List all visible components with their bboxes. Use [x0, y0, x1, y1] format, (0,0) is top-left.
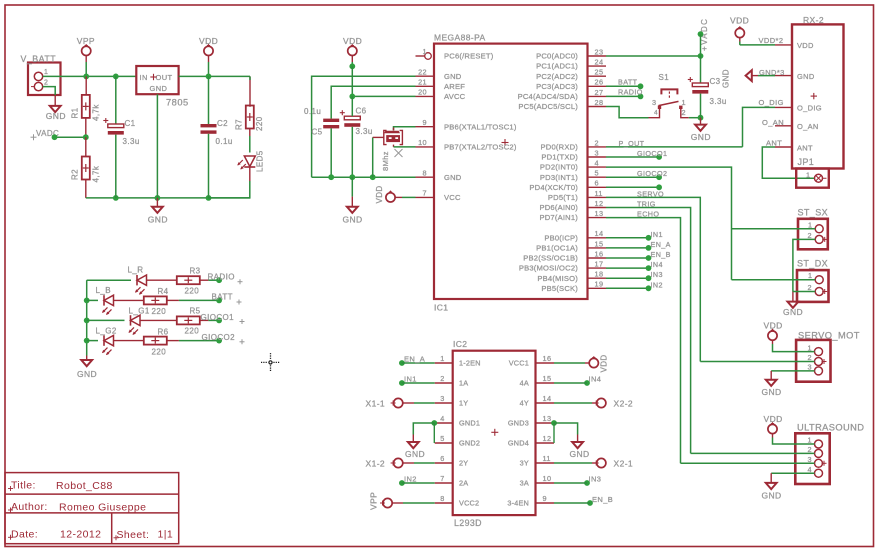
svg-text:3: 3	[595, 148, 599, 157]
ground under ST_DX	[783, 302, 803, 317]
svg-text:1: 1	[423, 47, 427, 56]
wire row2 left	[87, 299, 98, 301]
svg-text:VCC2: VCC2	[459, 499, 479, 508]
svg-text:VDD: VDD	[199, 36, 218, 46]
junction VDD branch	[349, 63, 355, 96]
svg-text:VDD: VDD	[730, 16, 749, 26]
node RADIO	[208, 272, 243, 284]
junction led row2	[84, 298, 90, 304]
svg-text:X2-2: X2-2	[614, 399, 634, 409]
svg-text:V_BATT: V_BATT	[21, 54, 57, 64]
svg-text:Romeo Giuseppe: Romeo Giuseppe	[59, 502, 146, 514]
svg-text:GIOCO2: GIOCO2	[202, 333, 236, 342]
wire TRIG to ULTRA pin2	[691, 452, 815, 454]
svg-text:4A: 4A	[520, 379, 529, 388]
svg-text:Robot_C88: Robot_C88	[56, 480, 113, 492]
net EN_B at IC2	[554, 495, 613, 506]
svg-text:PD1(TXD): PD1(TXD)	[541, 153, 578, 162]
label VDD*2	[759, 36, 784, 45]
svg-text:0.1u: 0.1u	[304, 107, 321, 116]
mouse crosshair cursor	[261, 353, 280, 372]
svg-text:PD7(AIN1): PD7(AIN1)	[539, 213, 578, 222]
svg-text:L_R: L_R	[128, 266, 144, 275]
resistor R5	[177, 307, 201, 336]
svg-text:X1-1: X1-1	[366, 399, 386, 409]
capacitor C6	[340, 107, 373, 137]
supply VDD power	[199, 36, 218, 76]
svg-text:10: 10	[543, 474, 552, 483]
svg-text:24: 24	[595, 58, 604, 67]
svg-text:EN_A: EN_A	[404, 355, 425, 364]
svg-text:3A: 3A	[520, 479, 529, 488]
svg-text:C1: C1	[125, 119, 136, 128]
wire SERVO to pin2	[700, 361, 814, 363]
wire VDD to SERVO pin1	[773, 344, 815, 352]
wire pin14 to X2-2	[554, 402, 597, 404]
led L_R	[128, 266, 147, 295]
svg-text:O_DIG: O_DIG	[797, 104, 822, 113]
wire L_G1 to R5	[141, 319, 178, 321]
svg-text:2A: 2A	[459, 479, 468, 488]
wire pin3 GIOCO1	[606, 149, 667, 160]
wire C5 to rail	[330, 128, 332, 177]
svg-text:6: 6	[595, 179, 599, 188]
svg-text:2Y: 2Y	[459, 459, 468, 468]
svg-text:3Y: 3Y	[520, 459, 529, 468]
svg-text:1: 1	[682, 98, 686, 107]
svg-text:AREF: AREF	[444, 82, 465, 91]
label ANT net	[766, 139, 782, 148]
wire ANT to JP1	[762, 147, 814, 178]
svg-text:GND1: GND1	[459, 419, 480, 428]
svg-text:R2: R2	[71, 169, 80, 180]
wire pin12 TRIG	[606, 200, 691, 454]
wire 7805 gnd down	[156, 94, 158, 198]
wire VADC node to R2	[85, 137, 87, 156]
gnd rail under caps	[312, 176, 416, 178]
wire GND*3	[752, 75, 775, 77]
svg-text:GND: GND	[46, 111, 66, 121]
svg-text:4: 4	[595, 159, 599, 168]
svg-text:GND: GND	[444, 173, 462, 182]
switch S1	[649, 73, 689, 118]
svg-text:4Y: 4Y	[520, 399, 529, 408]
svg-text:11: 11	[595, 189, 603, 198]
led L_G2	[96, 327, 117, 356]
svg-text:SERVO: SERVO	[637, 190, 664, 199]
svg-text:IN: IN	[140, 73, 148, 82]
svg-text:GND3: GND3	[508, 419, 529, 428]
wire LED5 to bottom rail	[209, 167, 250, 198]
svg-text:IN1: IN1	[404, 375, 417, 384]
svg-text:S1: S1	[659, 73, 670, 82]
svg-text:9: 9	[543, 494, 547, 503]
wire rail to R1	[85, 76, 87, 95]
crystal X 8Mhz	[381, 130, 403, 171]
svg-text:14: 14	[595, 229, 604, 238]
svg-text:PB3(MOSI/OC2): PB3(MOSI/OC2)	[519, 264, 578, 273]
wire VADC down to C3	[700, 34, 702, 83]
svg-text:GND: GND	[762, 387, 782, 397]
svg-text:8: 8	[423, 168, 427, 177]
svg-text:4: 4	[654, 110, 658, 117]
svg-text:TRIG: TRIG	[637, 200, 656, 209]
svg-text:VDD: VDD	[797, 41, 814, 50]
svg-text:GND: GND	[148, 215, 168, 225]
RX-2 pin stubs	[775, 45, 792, 147]
wire R6 to GIOCO2	[167, 340, 219, 342]
junction VPP rail	[83, 74, 89, 80]
ground bottom rail	[148, 198, 168, 225]
label O_AN net	[762, 118, 784, 127]
svg-text:IN3: IN3	[651, 270, 663, 279]
wire pin23 to VADC net	[606, 55, 701, 57]
svg-text:11: 11	[543, 454, 551, 463]
net IN2 at IC1	[606, 280, 663, 291]
svg-text:GND: GND	[797, 72, 815, 81]
supply VDD at IC2	[585, 354, 609, 372]
ground led array	[77, 360, 97, 379]
svg-text:JP1: JP1	[798, 157, 815, 167]
svg-text:VDD*2: VDD*2	[759, 36, 784, 45]
svg-text:28: 28	[595, 98, 604, 107]
junction crystal rail	[370, 174, 376, 180]
ic IC1 left pin stubs	[416, 47, 435, 197]
svg-text:Author:: Author:	[11, 501, 48, 513]
svg-text:GND: GND	[783, 307, 803, 317]
svg-text:PD3(INT1): PD3(INT1)	[540, 173, 578, 182]
connector SERVO_MOT	[796, 330, 860, 381]
svg-text:PC6(/RESET): PC6(/RESET)	[444, 52, 494, 61]
svg-text:PB1(OC1A): PB1(OC1A)	[536, 244, 578, 253]
wire SERVO pin3 gnd	[771, 371, 814, 380]
svg-text:ANT: ANT	[797, 143, 813, 152]
wire row4 left	[87, 340, 98, 342]
svg-text:3: 3	[652, 98, 656, 107]
wire L_G2 to R6	[114, 340, 144, 342]
svg-text:8Mhz: 8Mhz	[381, 151, 390, 171]
svg-text:PC5(ADC5/SCL): PC5(ADC5/SCL)	[518, 102, 578, 111]
svg-text:14: 14	[543, 394, 552, 403]
svg-text:C6: C6	[356, 107, 367, 116]
svg-text:12-2012: 12-2012	[60, 528, 101, 540]
led L_B	[96, 286, 114, 315]
svg-text:3.3u: 3.3u	[356, 127, 373, 136]
resistor R2	[71, 157, 101, 183]
svg-text:6: 6	[440, 454, 444, 463]
wire VPP to VCC2	[392, 502, 435, 504]
resistor R6	[144, 328, 169, 357]
svg-text:VDD: VDD	[600, 354, 609, 372]
supply VDD at RX-2	[730, 16, 749, 45]
wire C2 to bottom rail	[208, 134, 210, 198]
wire pin10 to crystal	[394, 145, 416, 147]
svg-text:15: 15	[595, 239, 604, 248]
label O_DIG net	[759, 98, 784, 107]
svg-text:13: 13	[543, 414, 552, 423]
resistor R3	[177, 267, 201, 296]
module RX-2	[792, 15, 844, 169]
label VADC	[31, 129, 86, 140]
svg-text:4: 4	[440, 414, 444, 423]
svg-text:PD2(INT0): PD2(INT0)	[540, 163, 578, 172]
svg-text:1A: 1A	[459, 379, 468, 388]
svg-text:9: 9	[423, 118, 427, 127]
svg-text:PC3(ADC3): PC3(ADC3)	[536, 82, 578, 91]
svg-text:10: 10	[418, 138, 427, 147]
svg-text:13: 13	[595, 209, 604, 218]
resistor R7	[235, 106, 265, 132]
svg-text:VPP: VPP	[77, 36, 95, 46]
pad VPP at IC2	[369, 492, 393, 510]
wire pin20 AVCC	[352, 95, 415, 97]
connector V_BATT	[21, 54, 61, 95]
svg-text:C3: C3	[710, 77, 721, 86]
svg-text:VCC: VCC	[444, 193, 461, 202]
wire 7805 out to VDD rail	[179, 75, 250, 77]
svg-text:O_AN: O_AN	[762, 118, 784, 127]
svg-text:VDD: VDD	[764, 414, 783, 424]
wire ECHO to ULTRA pin3	[681, 462, 815, 464]
wire L_R to R3	[147, 279, 178, 281]
wire rail corner to R7	[249, 76, 251, 106]
label +VADC vertical	[698, 18, 709, 51]
svg-text:5: 5	[440, 434, 444, 443]
svg-text:L_G2: L_G2	[96, 327, 117, 336]
svg-text:R6: R6	[158, 328, 169, 337]
svg-text:RADIO: RADIO	[208, 272, 235, 281]
svg-text:2: 2	[682, 108, 686, 117]
svg-text:R3: R3	[190, 267, 201, 276]
connector ULTRASOUND	[795, 422, 864, 484]
svg-text:IN2: IN2	[651, 280, 663, 289]
svg-text:PB7(XTAL2/TOSC2): PB7(XTAL2/TOSC2)	[444, 143, 517, 152]
svg-text:EN_B: EN_B	[592, 495, 613, 504]
svg-text:17: 17	[595, 260, 604, 269]
svg-text:26: 26	[595, 78, 604, 87]
svg-text:220: 220	[152, 307, 167, 316]
wire VDD to RX-2	[740, 44, 775, 46]
junction pin23 VADC	[698, 53, 704, 59]
svg-text:15: 15	[543, 374, 552, 383]
wire GND1 loop	[413, 423, 434, 443]
capacitor C3	[688, 77, 727, 106]
svg-text:L293D: L293D	[454, 518, 482, 528]
node GIOCO2	[202, 333, 245, 344]
svg-text:220: 220	[185, 327, 200, 336]
junction VDD rail	[206, 74, 212, 80]
svg-text:BATT: BATT	[618, 78, 638, 87]
svg-text:220: 220	[152, 348, 167, 357]
wire VCC1 to VDD	[554, 362, 585, 364]
wire pin11 to X2-1	[554, 462, 597, 464]
svg-text:1-2EN: 1-2EN	[459, 359, 481, 368]
svg-text:7805: 7805	[166, 97, 189, 107]
svg-text:ECHO: ECHO	[637, 210, 659, 219]
svg-text:3-4EN: 3-4EN	[507, 499, 529, 508]
wire L_B to R4	[114, 299, 144, 301]
svg-text:EN_B: EN_B	[651, 250, 671, 259]
svg-text:1: 1	[808, 220, 812, 229]
supply VPP	[77, 36, 95, 76]
svg-text:VCC1: VCC1	[509, 359, 529, 368]
wire pin11 SERVO	[606, 190, 700, 362]
svg-text:BATT: BATT	[212, 293, 233, 302]
svg-text:PC2(ADC2): PC2(ADC2)	[536, 72, 578, 81]
connector ST_SX	[798, 208, 829, 250]
svg-text:R4: R4	[158, 287, 169, 296]
svg-text:O_AN: O_AN	[797, 122, 819, 131]
junction led row4	[84, 338, 90, 344]
svg-text:Date:: Date:	[11, 528, 38, 540]
node BATT	[212, 293, 242, 305]
junction C2 bottom	[206, 195, 212, 201]
led L_G1	[129, 307, 150, 335]
capacitor C2	[201, 119, 233, 146]
net IN4 at IC2	[554, 375, 601, 386]
svg-text:220: 220	[185, 287, 200, 296]
svg-text:VDD: VDD	[343, 36, 362, 46]
svg-text:X2-1: X2-1	[614, 458, 634, 468]
wire rail to C1	[115, 76, 117, 124]
wire pin13 ECHO	[606, 210, 681, 464]
ground IC2 right	[570, 442, 590, 459]
wire INT0 to ST_SX pin1	[732, 228, 816, 230]
svg-text:P_OUT: P_OUT	[619, 139, 645, 148]
wire pin6 INT1	[606, 184, 662, 190]
svg-text:PB4(MISO): PB4(MISO)	[537, 274, 578, 283]
title block	[5, 473, 179, 544]
svg-text:8: 8	[440, 494, 444, 503]
wire C3 to gnd	[700, 94, 702, 125]
wire ST_SX pin2 gnd	[793, 239, 815, 301]
wire V_BATT pin1 to rail	[43, 75, 137, 77]
wire pin28 to S1	[606, 107, 649, 118]
svg-text:2: 2	[808, 283, 812, 292]
svg-text:22: 22	[418, 67, 427, 76]
net IN1 at IC2	[399, 375, 435, 386]
svg-text:GND: GND	[722, 69, 731, 88]
wire VDD to ULTRA pin1	[773, 438, 815, 445]
junction GND1 node	[431, 420, 437, 426]
svg-text:Sheet:: Sheet:	[117, 529, 150, 541]
svg-text:RADIO: RADIO	[618, 88, 643, 97]
capacitor C1	[103, 118, 139, 146]
supply VDD at VCC pin7	[375, 185, 416, 203]
svg-text:0.1u: 0.1u	[216, 137, 233, 146]
net IN4 at IC1	[606, 260, 663, 271]
svg-text:VPP: VPP	[369, 492, 379, 510]
ic IC1 right pin stubs	[588, 47, 607, 288]
svg-text:GND: GND	[343, 215, 363, 225]
wire row3 left	[87, 319, 125, 321]
svg-text:12: 12	[543, 434, 552, 443]
svg-text:18: 18	[595, 270, 604, 279]
svg-text:GND: GND	[77, 369, 97, 379]
svg-text:PD6(AIN0): PD6(AIN0)	[539, 203, 578, 212]
svg-text:3.3u: 3.3u	[710, 97, 727, 106]
wire R5 to GIOCO1	[200, 319, 219, 321]
svg-text:1Y: 1Y	[459, 399, 468, 408]
wire rail to C2	[208, 76, 210, 124]
svg-text:5: 5	[595, 169, 599, 178]
svg-text:GIOCO2: GIOCO2	[637, 169, 667, 178]
supply VDD at IC1	[343, 36, 362, 66]
led array left vertical	[86, 280, 88, 360]
supply VDD at ULTRASOUND	[764, 414, 783, 438]
svg-text:1|1: 1|1	[158, 528, 174, 540]
junction C6 rail	[349, 174, 355, 180]
resistor R4	[144, 287, 169, 316]
svg-text:ST_SX: ST_SX	[798, 208, 829, 218]
svg-text:GND2: GND2	[459, 439, 480, 448]
svg-text:PD4(XCK/T0): PD4(XCK/T0)	[529, 183, 578, 192]
label RADIO net	[606, 88, 643, 100]
label GND*3	[759, 68, 785, 77]
wire pin2 P_OUT	[606, 139, 743, 148]
wire pin4 INT0 long	[606, 167, 732, 280]
wire X1-1 to pin3	[403, 402, 435, 404]
connector ST_DX	[797, 259, 829, 302]
net EN_A at IC2	[399, 355, 435, 366]
net IN3 at IC1	[606, 270, 663, 281]
svg-text:7: 7	[440, 474, 444, 483]
junction C1 top	[113, 74, 119, 80]
junction 7805 gnd bottom	[155, 195, 161, 201]
svg-text:VDD: VDD	[375, 185, 384, 203]
supply VDD at SERVO_MOT	[764, 321, 783, 345]
svg-text:2: 2	[44, 80, 48, 87]
wire VDD to C6	[351, 96, 353, 116]
node VADC dot	[52, 134, 89, 140]
svg-text:GND: GND	[405, 449, 425, 459]
net EN_B at IC1	[606, 250, 671, 261]
svg-text:PC1(ADC1): PC1(ADC1)	[536, 62, 578, 71]
svg-text:ST_DX: ST_DX	[797, 259, 828, 269]
wire R7 to LED5	[249, 129, 251, 153]
svg-text:7: 7	[423, 189, 427, 198]
junction C1 bottom	[113, 195, 119, 201]
svg-text:PB6(XTAL1/TOSC1): PB6(XTAL1/TOSC1)	[444, 122, 517, 131]
label BATT net	[606, 78, 643, 90]
svg-text:OUT: OUT	[156, 73, 173, 82]
led LED5	[237, 150, 264, 172]
wire INT0 to ST_DX pin1	[732, 279, 816, 281]
svg-text:R1: R1	[71, 107, 80, 118]
junction S1 gnd	[698, 115, 704, 121]
svg-text:EN_A: EN_A	[651, 240, 671, 249]
ground IC2 left	[405, 442, 425, 459]
IC2 right pin stubs	[536, 354, 555, 503]
ic IC2 L293D	[453, 339, 536, 528]
svg-text:IN1: IN1	[651, 230, 663, 239]
wire R4 to BATT	[167, 299, 219, 301]
IC2 left pin stubs	[435, 354, 453, 503]
svg-text:GND: GND	[762, 490, 782, 500]
net EN_A at IC1	[606, 240, 671, 251]
resistor R1	[71, 95, 101, 121]
svg-text:16: 16	[543, 354, 552, 363]
svg-text:19: 19	[595, 280, 604, 289]
wire C1 to bottom rail	[115, 135, 117, 198]
svg-text:PB5(SCK): PB5(SCK)	[541, 284, 578, 293]
ground under SERVO_MOT	[762, 380, 782, 397]
capacitor C5	[304, 107, 339, 137]
svg-text:3: 3	[440, 394, 444, 403]
net IN3 at IC2	[554, 475, 601, 486]
svg-text:12: 12	[595, 199, 604, 208]
pad X2-1	[594, 458, 633, 468]
